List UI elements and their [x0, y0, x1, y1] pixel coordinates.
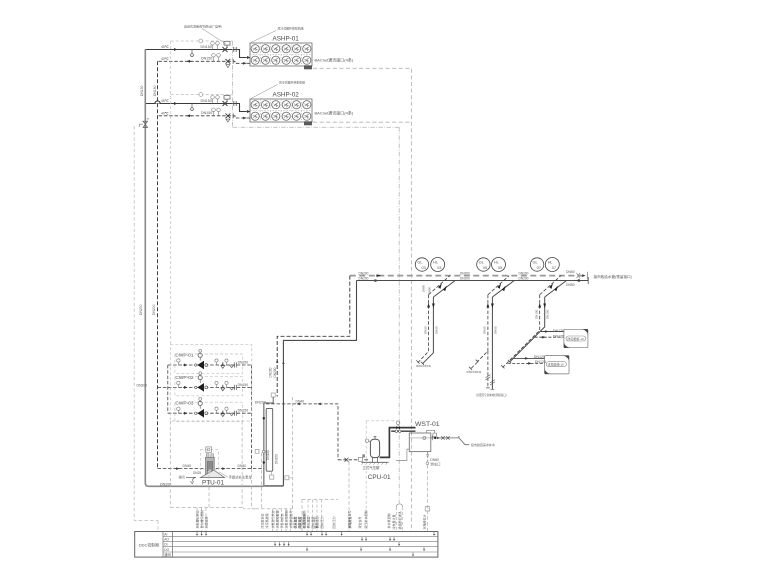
svg-text:定压补水控制: 定压补水控制	[363, 510, 368, 528]
svg-text:DN200: DN200	[152, 304, 156, 315]
svg-text:40℃: 40℃	[161, 112, 169, 116]
svg-text:补水泵控制: 补水泵控制	[386, 513, 391, 528]
svg-text:DN150: DN150	[275, 454, 279, 464]
svg-text:DN200: DN200	[269, 367, 273, 377]
svg-text:DN200: DN200	[255, 400, 266, 404]
svg-text:DN150: DN150	[266, 450, 270, 460]
svg-text:CWP-02: CWP-02	[175, 375, 193, 381]
svg-text:DN200: DN200	[359, 271, 369, 275]
svg-text:DI: DI	[164, 543, 167, 547]
svg-text:手提式补水泵车: 手提式补水泵车	[229, 475, 253, 480]
svg-text:DN150: DN150	[201, 111, 212, 115]
svg-text:DDC控制柜: DDC控制柜	[139, 541, 160, 547]
svg-text:详见暖施-10: 详见暖施-10	[567, 336, 584, 341]
svg-text:DO: DO	[164, 548, 169, 552]
svg-text:接低区空调末端: 接低区空调末端	[467, 370, 482, 374]
svg-text:风冷式螺杆热泵机组: 风冷式螺杆热泵机组	[278, 26, 304, 31]
svg-text:45℃: 45℃	[161, 45, 169, 49]
svg-text:DN150: DN150	[201, 57, 212, 61]
svg-text:HL: HL	[433, 261, 438, 265]
svg-text:DN200: DN200	[519, 277, 529, 281]
svg-text:GL: GL	[533, 261, 538, 265]
svg-text:BACnet通讯接口(4条): BACnet通讯接口(4条)	[315, 109, 354, 115]
svg-text:泄水口: 泄水口	[430, 462, 440, 467]
svg-text:冷热量计量: 冷热量计量	[391, 514, 396, 529]
svg-text:DN65: DN65	[493, 326, 497, 334]
svg-text:DN150: DN150	[201, 99, 212, 103]
svg-text:CWP-01: CWP-01	[175, 352, 193, 358]
svg-text:排污: 排污	[179, 475, 186, 480]
svg-text:DN200: DN200	[137, 384, 148, 388]
svg-text:DN65: DN65	[483, 326, 487, 334]
svg-text:DN200: DN200	[359, 277, 369, 281]
svg-text:DN50: DN50	[566, 283, 575, 287]
svg-text:回水温度: 回水温度	[310, 516, 315, 528]
svg-text:DN150: DN150	[201, 45, 212, 49]
svg-text:GL: GL	[417, 261, 422, 265]
svg-text:风冷式螺杆热泵机组: 风冷式螺杆热泵机组	[279, 80, 305, 85]
svg-text:详见暖施-10: 详见暖施-10	[548, 362, 565, 367]
svg-text:冷冻泵状态: 冷冻泵状态	[260, 513, 265, 528]
svg-text:DN50: DN50	[430, 458, 439, 462]
svg-text:CWP-03: CWP-03	[175, 401, 193, 407]
svg-text:HL: HL	[494, 261, 499, 265]
svg-text:DN100: DN100	[546, 309, 550, 319]
svg-text:回水压力: 回水压力	[319, 516, 324, 528]
svg-text:AI: AI	[164, 533, 167, 537]
svg-text:DN125: DN125	[553, 329, 564, 333]
svg-text:DN150: DN150	[238, 409, 249, 413]
svg-text:GL: GL	[479, 261, 484, 265]
svg-text:05: 05	[498, 266, 502, 270]
svg-text:DN50: DN50	[566, 270, 575, 274]
svg-text:供水压力: 供水压力	[314, 516, 319, 528]
svg-text:45℃: 45℃	[161, 99, 169, 103]
svg-text:水流开关状态: 水流开关状态	[301, 510, 306, 528]
svg-text:DN100: DN100	[535, 309, 539, 319]
svg-text:液位信号: 液位信号	[357, 516, 362, 528]
svg-text:DN125: DN125	[553, 335, 564, 339]
svg-text:WST-01: WST-01	[415, 421, 440, 428]
svg-text:DN150: DN150	[140, 85, 144, 96]
svg-text:DN65: DN65	[423, 326, 427, 334]
svg-text:供水温度: 供水温度	[305, 516, 310, 528]
svg-text:DN125: DN125	[534, 355, 545, 359]
svg-text:立式气压罐: 立式气压罐	[363, 465, 381, 470]
svg-text:定压水位信号: 定压水位信号	[346, 510, 351, 528]
svg-text:冷冻泵故障: 冷冻泵故障	[264, 513, 269, 528]
svg-text:ASHP-02: ASHP-02	[273, 92, 300, 99]
svg-text:接市政给水管(预留接口): 接市政给水管(预留接口)	[594, 274, 632, 279]
svg-text:HL: HL	[548, 261, 553, 265]
svg-text:DN200: DN200	[460, 271, 470, 275]
svg-text:05: 05	[483, 266, 487, 270]
svg-text:DN200: DN200	[139, 304, 143, 315]
svg-text:DN200: DN200	[519, 271, 529, 275]
svg-text:AO: AO	[164, 538, 169, 542]
svg-text:07: 07	[552, 266, 556, 270]
svg-text:BACnet通讯接口(4条): BACnet通讯接口(4条)	[315, 56, 354, 62]
svg-text:温度信号: 温度信号	[296, 516, 301, 528]
svg-text:接低区空调末端(预留接口): 接低区空调末端(预留接口)	[476, 393, 506, 397]
svg-text:CPU-01: CPU-01	[368, 474, 391, 481]
svg-text:DN200: DN200	[160, 482, 171, 486]
svg-text:水泵启停控制: 水泵启停控制	[283, 510, 288, 528]
svg-text:DN200: DN200	[273, 367, 277, 377]
svg-text:回水压力: 回水压力	[331, 516, 336, 528]
svg-text:自动式流量调节阀(出厂自带): 自动式流量调节阀(出厂自带)	[184, 23, 222, 28]
svg-text:自动排污控制: 自动排污控制	[199, 510, 204, 528]
svg-text:水泵运行状态: 水泵运行状态	[270, 510, 275, 528]
svg-text:水泵联锁信号: 水泵联锁信号	[288, 510, 293, 528]
svg-text:DN65: DN65	[434, 326, 438, 334]
svg-text:水箱液位计: 水箱液位计	[422, 514, 427, 529]
svg-text:DN80: DN80	[428, 286, 432, 294]
svg-text:通讯: 通讯	[164, 552, 171, 557]
svg-text:DN150: DN150	[238, 383, 249, 387]
svg-text:机组群控通讯: 机组群控通讯	[397, 511, 402, 529]
svg-text:DN80: DN80	[421, 284, 425, 292]
svg-text:DN150: DN150	[238, 360, 249, 364]
svg-text:40℃: 40℃	[161, 57, 169, 61]
svg-text:水处理仪状态: 水处理仪状态	[194, 510, 199, 528]
svg-text:03: 03	[422, 266, 426, 270]
svg-text:ASHP-01: ASHP-01	[273, 36, 300, 43]
svg-text:水质监测: 水质监测	[203, 516, 208, 528]
svg-text:手自动状态: 手自动状态	[279, 513, 284, 528]
svg-text:DN40: DN40	[296, 399, 305, 403]
svg-text:水泵故障报警: 水泵故障报警	[274, 510, 279, 528]
svg-text:03: 03	[437, 266, 441, 270]
svg-text:接市政自来水补水: 接市政自来水补水	[471, 442, 495, 447]
svg-text:DN25: DN25	[193, 471, 201, 475]
svg-text:07: 07	[537, 266, 541, 270]
svg-text:DN150: DN150	[153, 85, 157, 96]
svg-text:PTU-01: PTU-01	[202, 480, 224, 487]
svg-text:DN200: DN200	[460, 277, 470, 281]
svg-text:DN40: DN40	[183, 464, 192, 468]
